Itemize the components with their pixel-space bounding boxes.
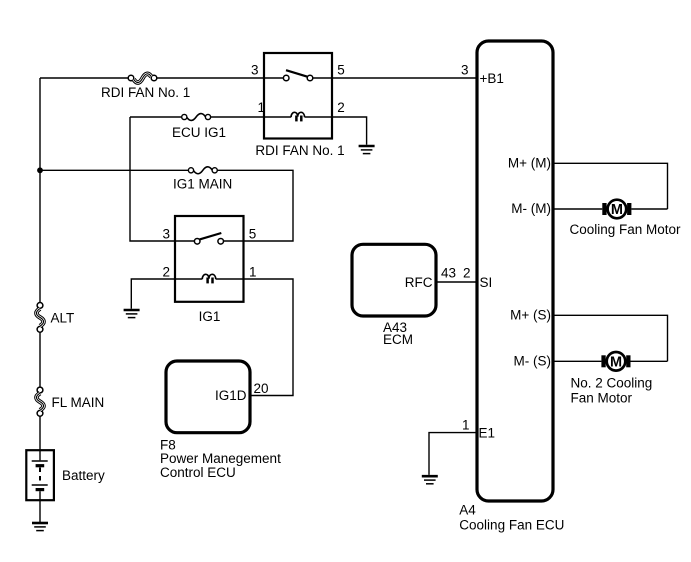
switch contacts xyxy=(175,240,194,242)
fusible link RDI FAN No. 1 xyxy=(128,74,157,83)
svg-text:Power Manegement: Power Manegement xyxy=(160,451,281,466)
wire between ALT and FL MAIN xyxy=(39,332,41,387)
wire motor to M+ loop xyxy=(631,360,668,362)
fuse IG1 MAIN xyxy=(188,167,217,174)
wire fusible link to relay pin 3 xyxy=(157,77,264,79)
relay RDI FAN No. 1 xyxy=(264,53,332,139)
svg-text:ALT: ALT xyxy=(51,311,75,326)
svg-text:20: 20 xyxy=(254,381,269,396)
svg-text:RDI FAN No. 1: RDI FAN No. 1 xyxy=(101,85,190,100)
wire relay pin 5 to +B1 xyxy=(332,77,477,79)
svg-text:3: 3 xyxy=(461,63,469,78)
svg-text:+B1: +B1 xyxy=(480,71,504,86)
Cooling Fan ECU box A4 xyxy=(477,41,553,501)
svg-text:Cooling Fan Motor: Cooling Fan Motor xyxy=(570,222,682,237)
ground (E1) xyxy=(422,476,438,484)
svg-text:ECU IG1: ECU IG1 xyxy=(172,125,226,140)
relay IG1 xyxy=(175,216,244,302)
svg-text:RFC: RFC xyxy=(405,275,433,290)
svg-text:2: 2 xyxy=(463,266,471,281)
svg-text:1: 1 xyxy=(258,100,266,115)
motor M (no. 2 cooling fan motor) xyxy=(601,352,630,371)
ECM box A43 xyxy=(352,244,436,316)
ground (IG1) xyxy=(124,310,140,318)
wire IG1 pin 1 to IG1D pin 20 xyxy=(244,279,294,396)
svg-text:IG1: IG1 xyxy=(199,309,221,324)
wire M+ (M) xyxy=(553,163,668,209)
fusible link FL MAIN xyxy=(36,387,43,416)
wire main vertical from top corner to ALT xyxy=(39,78,41,302)
svg-text:Cooling Fan ECU: Cooling Fan ECU xyxy=(459,518,564,533)
svg-text:3: 3 xyxy=(162,227,170,242)
svg-text:M+ (S): M+ (S) xyxy=(510,307,551,322)
wire ECU IG1 branch xyxy=(130,116,182,118)
ECU box IG1D (F8 Power Manegement Control ECU) xyxy=(166,361,250,433)
wire RFC to SI xyxy=(436,281,477,283)
wire ECU IG1 down to IG1 pin 3 xyxy=(130,117,175,241)
switch contacts xyxy=(264,77,283,79)
wire FL MAIN to battery xyxy=(39,416,41,450)
label A4 Cooling Fan ECU xyxy=(459,502,564,532)
svg-text:2: 2 xyxy=(337,100,345,115)
relay coil xyxy=(264,116,291,118)
svg-text:M: M xyxy=(611,202,623,218)
wire E1 to ground xyxy=(429,433,477,475)
svg-text:5: 5 xyxy=(249,227,257,242)
svg-text:Control ECU: Control ECU xyxy=(160,465,236,480)
svg-text:IG1 MAIN: IG1 MAIN xyxy=(173,177,232,192)
svg-text:Battery: Battery xyxy=(62,468,105,483)
wire motor to M+ loop xyxy=(631,208,667,210)
wire M- (M) to motor xyxy=(553,208,602,210)
ground (battery) xyxy=(32,523,48,531)
svg-text:Fan Motor: Fan Motor xyxy=(571,391,633,406)
svg-text:SI: SI xyxy=(480,275,493,290)
fusible link ALT xyxy=(36,303,43,333)
svg-text:A4: A4 xyxy=(459,502,476,517)
fuse ECU IG1 xyxy=(182,114,211,121)
battery xyxy=(26,450,54,500)
svg-text:3: 3 xyxy=(251,62,259,77)
svg-text:ECM: ECM xyxy=(383,332,413,347)
motor M (cooling fan motor) xyxy=(602,200,631,219)
svg-text:5: 5 xyxy=(337,62,345,77)
label A43 ECM xyxy=(383,320,413,347)
label F8 Power Manegement Control ECU xyxy=(160,438,281,481)
svg-text:No. 2 Cooling: No. 2 Cooling xyxy=(571,376,653,391)
wire fuse to relay pin 1 xyxy=(211,116,264,118)
junction dot xyxy=(37,167,43,173)
svg-text:43: 43 xyxy=(441,266,456,281)
wire IG1 pin 2 to ground xyxy=(131,279,175,309)
svg-text:E1: E1 xyxy=(479,426,496,441)
wire top horizontal to fusible link xyxy=(40,77,128,79)
relay coil xyxy=(175,278,202,280)
svg-text:FL MAIN: FL MAIN xyxy=(52,395,105,410)
wire fuse to IG1 pin 5 xyxy=(217,170,293,241)
svg-text:2: 2 xyxy=(162,265,170,280)
svg-text:M- (M): M- (M) xyxy=(511,201,551,216)
wire IG1 MAIN branch xyxy=(40,169,188,171)
svg-text:M: M xyxy=(610,355,622,371)
wire M+ (S) xyxy=(553,315,668,361)
wire relay pin 2 to ground xyxy=(332,117,367,145)
svg-text:M- (S): M- (S) xyxy=(514,353,552,368)
svg-text:IG1D: IG1D xyxy=(215,388,247,403)
wire battery to ground xyxy=(39,500,41,522)
svg-text:1: 1 xyxy=(249,265,257,280)
wire M- (S) to motor xyxy=(553,360,601,362)
svg-text:1: 1 xyxy=(462,418,470,433)
label No. 2 Cooling Fan Motor xyxy=(571,376,653,406)
svg-text:RDI FAN No. 1: RDI FAN No. 1 xyxy=(255,143,344,158)
svg-text:M+ (M): M+ (M) xyxy=(508,155,551,170)
ground (relay RDI FAN No. 1) xyxy=(359,146,375,154)
